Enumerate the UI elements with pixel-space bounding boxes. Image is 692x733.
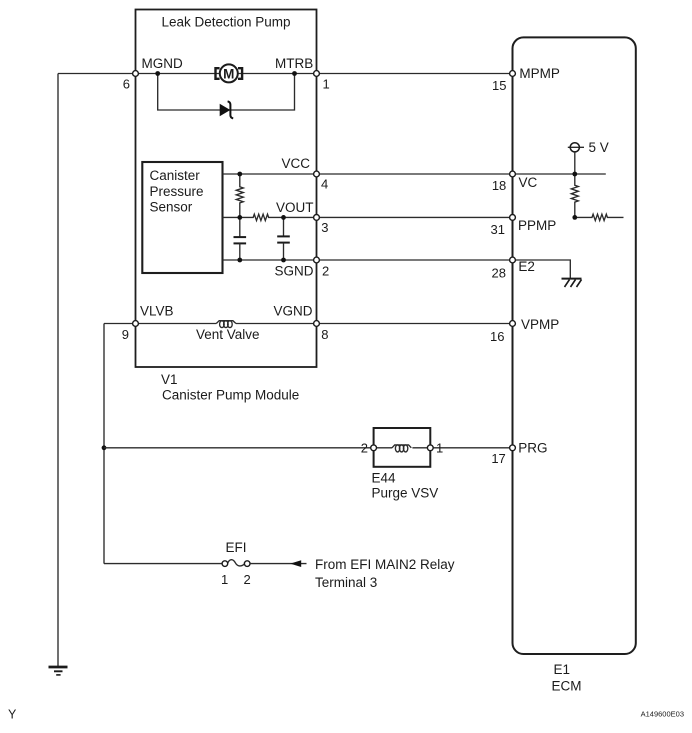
svg-text:EFI: EFI <box>226 540 247 555</box>
ground (ECM internal, hatched) <box>562 279 582 287</box>
svg-text:Canister: Canister <box>150 168 201 183</box>
fuse EFI <box>222 560 250 567</box>
pin 17 circle (ECM PRG) <box>510 445 516 451</box>
svg-text:Purge VSV: Purge VSV <box>372 486 439 501</box>
ECM box E1 <box>513 37 636 654</box>
5V supply symbol <box>568 143 584 174</box>
pin 6 circle <box>133 71 139 77</box>
wire VLVB-VGND-VPMP row <box>104 323 216 325</box>
svg-text:31: 31 <box>491 222 505 237</box>
svg-text:ECM: ECM <box>552 679 582 694</box>
wire EFI row <box>104 563 222 565</box>
svg-text:VC: VC <box>519 175 538 190</box>
diode D1 (zener across motor) <box>220 101 234 118</box>
wire diode loop <box>158 74 295 111</box>
svg-text:E1: E1 <box>554 662 571 677</box>
resistor R1 (sensor pull-up VCC to VOUT) <box>236 174 243 217</box>
junction VOUT node left <box>237 215 242 220</box>
wire VCC-VC row <box>223 173 606 175</box>
svg-text:MPMP: MPMP <box>519 66 560 81</box>
svg-text:From EFI MAIN2 Relay: From EFI MAIN2 Relay <box>315 557 455 572</box>
wire to relay with arrow <box>250 563 307 565</box>
svg-text:VCC: VCC <box>282 156 311 171</box>
svg-text:4: 4 <box>321 177 328 192</box>
junction VCC node <box>237 172 242 177</box>
svg-text:Y: Y <box>8 708 17 722</box>
svg-text:A149600E03: A149600E03 <box>641 710 684 719</box>
wire PRG row left <box>104 447 374 449</box>
svg-text:28: 28 <box>492 266 506 281</box>
motor M1 (leak detection pump motor) <box>216 64 243 82</box>
junction SGND node right <box>281 258 286 263</box>
junction PPMP node <box>572 215 577 220</box>
svg-text:1: 1 <box>436 441 443 456</box>
svg-text:VOUT: VOUT <box>276 200 314 215</box>
svg-text:PRG: PRG <box>518 441 547 456</box>
wire SGND-E2 row <box>223 259 513 261</box>
svg-text:VLVB: VLVB <box>140 304 174 319</box>
svg-text:3: 3 <box>321 220 328 235</box>
svg-text:Vent Valve: Vent Valve <box>196 327 260 342</box>
svg-text:Leak Detection Pump: Leak Detection Pump <box>161 15 290 30</box>
wire second rail (pin 9 to PRG and EFI rows) <box>103 324 105 564</box>
pin 1 of E44 <box>427 445 433 451</box>
pin 9 circle <box>133 321 139 327</box>
pin 2 of E44 <box>371 445 377 451</box>
svg-text:17: 17 <box>491 451 505 466</box>
junction MGND node <box>155 71 160 76</box>
svg-text:6: 6 <box>123 76 130 91</box>
svg-text:E44: E44 <box>372 471 397 486</box>
junction PRG rail node <box>102 445 107 450</box>
junction VC node <box>572 172 577 177</box>
svg-text:E2: E2 <box>518 259 535 274</box>
pin 2 circle <box>314 257 320 263</box>
inductor L2 purge VSV coil <box>392 445 411 452</box>
svg-text:SGND: SGND <box>275 264 314 279</box>
resistor R3 (ECM internal, PPMP series) <box>575 214 624 220</box>
svg-text:VGND: VGND <box>274 304 313 319</box>
junction SGND node left <box>237 258 242 263</box>
svg-text:1: 1 <box>323 77 330 92</box>
purge VSV box E44 <box>374 428 431 467</box>
svg-text:5 V: 5 V <box>589 140 609 155</box>
svg-text:Canister Pump Module: Canister Pump Module <box>162 388 299 403</box>
svg-text:MGND: MGND <box>142 56 183 71</box>
Canister Pressure Sensor box <box>142 162 222 273</box>
svg-text:8: 8 <box>321 327 328 342</box>
svg-text:2: 2 <box>361 441 368 456</box>
pin 15 circle (ECM MPMP) <box>510 71 516 77</box>
pin 31 circle (ECM PPMP) <box>510 215 516 221</box>
svg-text:2: 2 <box>244 572 251 587</box>
svg-text:Sensor: Sensor <box>150 200 193 215</box>
svg-text:M: M <box>223 66 234 81</box>
ground (battery negative, bottom left) <box>49 667 68 675</box>
svg-text:PPMP: PPMP <box>518 218 556 233</box>
wire left rail down to ground <box>57 74 59 668</box>
module box V1 Canister Pump Module <box>136 10 317 368</box>
resistor R2 (ECM internal, VC to PPMP) <box>571 174 578 217</box>
pin 4 circle <box>314 171 320 177</box>
pin 18 circle (ECM VC) <box>510 171 516 177</box>
svg-text:MTRB: MTRB <box>275 56 313 71</box>
wire PRG row right <box>430 447 512 449</box>
wire inside purge VSV <box>374 447 393 449</box>
pin 3 circle <box>314 215 320 221</box>
svg-text:Terminal 3: Terminal 3 <box>315 575 377 590</box>
pin 16 circle (ECM VPMP) <box>510 321 516 327</box>
svg-text:15: 15 <box>492 78 506 93</box>
wire VOUT-PPMP row (with series resistor) <box>223 214 513 220</box>
junction VOUT node right <box>281 215 286 220</box>
pin 8 circle <box>314 321 320 327</box>
svg-text:18: 18 <box>492 178 506 193</box>
junction MTRB node <box>292 71 297 76</box>
capacitor C2 <box>277 217 290 260</box>
svg-text:V1: V1 <box>161 372 178 387</box>
svg-text:9: 9 <box>122 327 129 342</box>
arrowhead from EFI MAIN2 relay <box>290 560 301 567</box>
wire MGND-MTRB-MPMP row <box>58 73 513 75</box>
pin 28 circle (ECM E2) <box>510 257 516 263</box>
svg-text:2: 2 <box>322 264 329 279</box>
svg-text:1: 1 <box>221 572 228 587</box>
wire E2 to ground inside ECM <box>513 260 571 279</box>
svg-text:VPMP: VPMP <box>521 317 559 332</box>
capacitor C1 <box>234 217 247 260</box>
pin 1 circle <box>314 71 320 77</box>
svg-text:16: 16 <box>490 329 504 344</box>
svg-text:Pressure: Pressure <box>150 184 204 199</box>
inductor L1 vent valve coil <box>216 321 236 328</box>
